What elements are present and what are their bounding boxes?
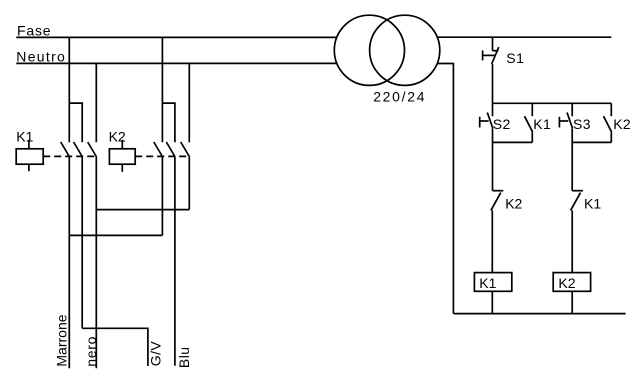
wire Marrone drop <box>68 157 70 369</box>
wire rejoin rail right pair <box>572 141 611 143</box>
svg-text:K1: K1 <box>16 128 33 144</box>
svg-text:K1: K1 <box>479 275 496 291</box>
svg-text:S1: S1 <box>506 50 524 66</box>
svg-text:Fase: Fase <box>17 22 51 38</box>
wire Fase bus <box>16 36 336 38</box>
wire K1 pole2 branch jog <box>69 103 82 142</box>
svg-text:K1: K1 <box>584 195 601 211</box>
contactor K2 main contacts (3 poles) <box>154 142 190 157</box>
svg-text:K2: K2 <box>558 275 575 291</box>
pushbutton S1 (NC) <box>483 37 525 66</box>
coil K2 (right circuit) <box>553 273 590 292</box>
svg-text:220/24: 220/24 <box>373 88 426 104</box>
pushbutton S3 (NO) <box>559 103 591 142</box>
svg-text:S3: S3 <box>573 116 591 132</box>
wire right branch down <box>571 142 573 190</box>
wire rejoin rail left pair <box>493 141 533 143</box>
wire bottom return rail <box>453 313 625 315</box>
svg-text:K2: K2 <box>613 116 631 132</box>
svg-text:Neutro: Neutro <box>16 49 66 65</box>
wire secondary return lead <box>437 64 453 314</box>
wire to coil K1 <box>491 210 493 272</box>
coil K2 (left contactor) <box>109 128 190 172</box>
wire Blu drop <box>174 157 176 366</box>
wire K1 pole3 drop from Neutro <box>95 63 97 142</box>
wire K1 pole1 drop from Fase <box>68 37 70 142</box>
pushbutton S2 (NO) <box>480 103 511 142</box>
wire G/V horizontal run <box>82 328 148 366</box>
contact K1 aux (NO) <box>525 103 552 142</box>
contactor K1 main contacts (3 poles) <box>61 142 97 157</box>
svg-text:K2: K2 <box>109 128 126 144</box>
wire K2 pole3 drop from Neutro <box>188 63 190 142</box>
contact K1 (NC) in K2 branch <box>571 191 602 212</box>
svg-text:nero: nero <box>83 336 99 367</box>
transformer T1 secondary circle <box>370 15 440 85</box>
wire nero drop <box>95 157 97 369</box>
wire branch rail <box>493 102 612 104</box>
svg-text:G/V: G/V <box>148 341 164 367</box>
wire coil K1 to return rail <box>491 291 493 313</box>
wire K2 pole1 output <box>161 157 163 236</box>
coil K1 (left contactor) <box>16 128 96 171</box>
svg-text:S2: S2 <box>493 116 511 132</box>
wire left branch down <box>492 142 494 190</box>
wire K2 pole3 output <box>188 157 190 210</box>
wire to coil K2 <box>571 210 573 272</box>
wire K2 pole2 branch jog <box>162 103 175 142</box>
svg-text:K2: K2 <box>505 195 522 211</box>
contact K2 (NC) in K1 branch <box>491 191 523 212</box>
svg-text:Blu: Blu <box>176 347 192 369</box>
wire link K2pole1 to Marrone <box>69 234 162 236</box>
contact K2 aux (NO) <box>604 103 632 142</box>
wire S1 to branch rail <box>492 64 494 104</box>
wire G/V drop upper <box>81 157 83 329</box>
wire Neutro bus <box>16 62 336 64</box>
wire K2 pole1 drop from Fase <box>161 37 163 142</box>
transformer T1 primary circle <box>334 15 404 85</box>
wire coil K2 to return rail <box>571 291 573 313</box>
wire link K2pole3 to nero <box>96 209 189 211</box>
svg-text:Marrone: Marrone <box>54 314 70 366</box>
wire secondary top rail <box>437 36 611 38</box>
svg-text:K1: K1 <box>533 116 551 132</box>
coil K1 (right circuit) <box>474 273 511 292</box>
